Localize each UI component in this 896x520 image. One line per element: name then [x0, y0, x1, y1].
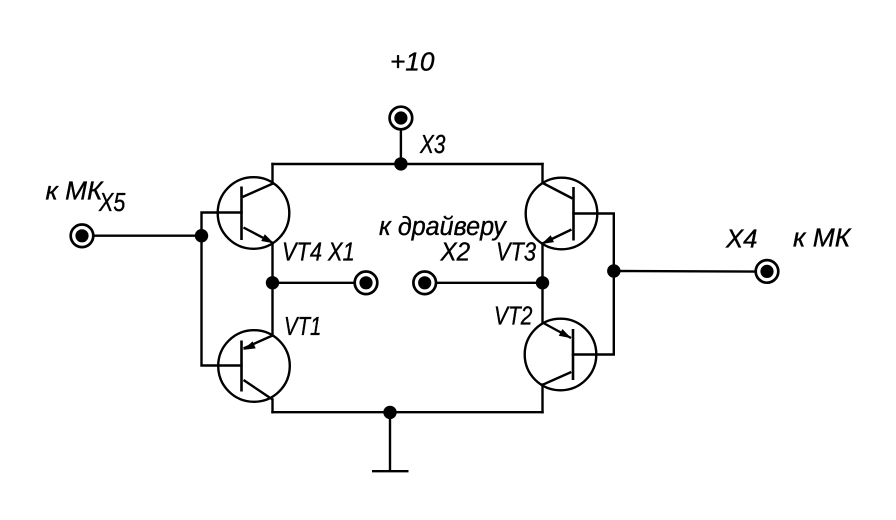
svg-text:X4: X4	[725, 226, 758, 254]
wire right emitter vertical	[541, 244, 543, 323]
node right output	[536, 276, 549, 289]
svg-text:к МК: к МК	[46, 178, 105, 206]
wire right collector vertical	[541, 164, 543, 183]
wire left bottom vertical	[271, 400, 273, 413]
wire top rail	[273, 163, 543, 165]
terminal X3	[390, 107, 413, 130]
svg-text:VT4 X1: VT4 X1	[282, 239, 355, 267]
svg-text:к драйверу: к драйверу	[379, 213, 507, 241]
svg-text:X5: X5	[98, 189, 126, 217]
wire X2 lead	[437, 282, 543, 284]
wire X3 stem	[400, 130, 402, 165]
wire X5 lead	[94, 234, 202, 236]
wire left base vertical	[202, 213, 242, 366]
wire X1 lead	[273, 282, 355, 284]
transistor VT1	[218, 330, 290, 402]
node left output	[266, 276, 279, 289]
svg-text:+10: +10	[390, 49, 435, 77]
wire right bottom vertical	[541, 385, 543, 413]
wire X4 lead	[614, 270, 755, 273]
terminal X4	[756, 260, 779, 283]
svg-text:X2: X2	[440, 238, 471, 267]
wire left collector vertical	[271, 164, 273, 184]
svg-text:X3: X3	[419, 130, 445, 159]
transistor VT2	[525, 319, 597, 391]
svg-text:VT2: VT2	[494, 302, 532, 330]
node junction X5-base	[195, 229, 208, 242]
svg-text:VT1: VT1	[284, 312, 321, 341]
terminal X5	[71, 225, 94, 248]
node right base	[607, 264, 620, 277]
ground	[372, 412, 409, 471]
node junction X3-rail	[394, 157, 407, 170]
wire right base vertical	[573, 214, 614, 355]
terminal X1	[355, 272, 378, 295]
node ground junction	[383, 406, 396, 419]
transistor VT3	[526, 178, 598, 250]
svg-text:VT3: VT3	[496, 239, 536, 267]
svg-text:к МК: к МК	[793, 225, 852, 253]
transistor VT4	[218, 177, 290, 249]
terminal X2	[413, 272, 436, 295]
wire bottom rail	[273, 411, 543, 413]
wire left emitter vertical	[271, 243, 273, 336]
